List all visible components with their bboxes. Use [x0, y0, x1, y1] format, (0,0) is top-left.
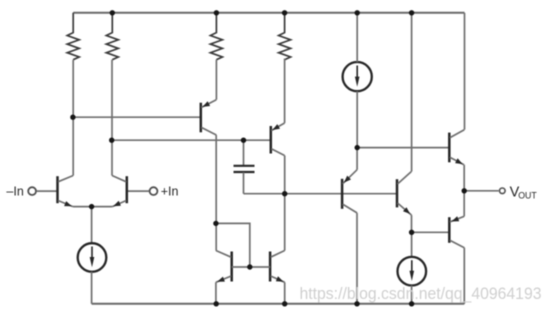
wire: R4 bottom to Q5 emitter — [284, 59, 286, 124]
current source I1 (input tail) — [78, 243, 107, 272]
node: bottom rail junction Q6 — [354, 301, 359, 306]
wire: node E to Q7 base — [357, 147, 449, 149]
transistor Q2 (input NPN, +In side) — [112, 176, 127, 207]
wire: -In terminal to Q1 base — [37, 190, 58, 192]
node: top rail junction I2 — [355, 10, 360, 15]
input terminal -In — [28, 187, 36, 195]
wire: R2 bottom to node B to Q2 collector — [111, 60, 113, 176]
transistor Q4b (mirror NPN, right) — [270, 251, 285, 283]
node: bottom rail junction Q4b — [282, 301, 287, 306]
current source I2 (top bias) — [343, 62, 372, 91]
transistor Q6 (PNP bias driver) — [342, 170, 357, 213]
wire: node F down to current source I3 — [411, 232, 413, 257]
node F: Q8 emitter / Q9 base / I3 — [409, 230, 414, 235]
node: top rail junction Q8 collector — [409, 10, 414, 15]
wire: V+ top supply rail — [73, 12, 464, 14]
wire: diode tie from node D to mirror bases — [216, 223, 250, 267]
node: C1 top / Q5 base wire — [241, 138, 246, 143]
node: top rail junction R3 — [214, 10, 219, 15]
wire: Q2 base to +In terminal — [127, 190, 149, 192]
node E: I2 / Q7 base / Q6 emitter — [355, 145, 360, 150]
node: top rail junction R2 — [110, 10, 115, 15]
transistor Q4a (mirror diode NPN, left) — [216, 251, 232, 283]
wire: I1 to V- rail — [91, 272, 93, 304]
wire: node F to Q9 base — [412, 231, 450, 233]
resistor R3 — [210, 13, 222, 60]
wire: node B to Q5 base — [112, 139, 271, 141]
wire: Q4b emitter to V- rail — [284, 282, 286, 304]
wire: I3 to V- rail — [411, 286, 413, 304]
wire: output node to VOUT terminal — [464, 190, 498, 192]
svg-text:OUT: OUT — [518, 191, 537, 201]
node A: R1 / Q1 collector / Q3 base — [70, 115, 75, 120]
transistor Q5 (PNP, second stage) — [271, 123, 285, 156]
wire: mirror base interconnect — [232, 266, 270, 268]
resistor R2 — [106, 13, 118, 60]
capacitor C1 bottom lead — [243, 172, 245, 193]
wire: node A to Q3 base — [73, 116, 201, 118]
wire: V- bottom supply rail — [92, 303, 465, 305]
wire: V+ rail down to Q8 collector — [411, 13, 413, 172]
transistor Q8 (NPN driver) — [397, 172, 412, 216]
svg-text:https://blog.csdn.net/qq_40964: https://blog.csdn.net/qq_40964193 — [300, 284, 542, 303]
output terminal VOUT — [500, 188, 506, 194]
transistor Q1 (input NPN, -In side) — [58, 176, 74, 207]
node D: Q3 collector / mirror diode — [213, 221, 218, 226]
node: bottom rail junction Q4a — [214, 301, 219, 306]
wire: Q5 collector down through node C to mirror — [284, 156, 286, 251]
wire: I2 to node E — [356, 91, 358, 147]
wire: V+ rail right end down to Q7 collector — [464, 13, 466, 130]
capacitor C1 (Miller compensation) top lead — [243, 140, 245, 165]
wire: Q7 emitter through output node to Q9 emitter — [463, 165, 465, 217]
svg-text:+In: +In — [161, 184, 179, 198]
node: output — [462, 188, 467, 193]
wire: node C horizontal run to Q6/Q8 bases — [244, 193, 398, 195]
wire: R1 bottom to node A to Q1 collector — [72, 60, 74, 176]
capacitor C1 plates — [234, 166, 255, 172]
wire: Q6 collector to V- rail — [356, 213, 358, 304]
svg-text:–In: –In — [6, 184, 23, 198]
transistor Q3 (PNP, first stage load follower) — [201, 100, 217, 135]
wire: Q3 collector down to mirror node — [215, 135, 217, 251]
input terminal +In — [150, 187, 158, 195]
wire: tail node down to current source I1 — [91, 207, 93, 244]
transistor Q7 (NPN output, top) — [449, 130, 464, 165]
wire: V+ rail to I2 — [356, 13, 358, 62]
node B: R2 / Q2 collector / Q5 base — [109, 138, 114, 143]
wire: R3 bottom to Q3 emitter — [215, 60, 217, 100]
wire: Q4a emitter to V- rail — [215, 282, 217, 304]
wire: node E down to Q6 emitter — [356, 148, 358, 170]
node: top rail junction R4 — [282, 10, 287, 15]
node: bottom rail junction I3 — [409, 301, 414, 306]
resistor R1 — [67, 13, 79, 60]
node C: Q5 collector / C1 / driver bases — [282, 191, 287, 196]
wire: Q8 emitter to node F — [411, 215, 413, 232]
wire: Q9 collector to V- rail right end — [463, 248, 465, 304]
node: input pair tail — [89, 204, 94, 209]
wire: emitters of Q1,Q2 to tail node — [73, 206, 112, 208]
resistor R4 — [279, 13, 291, 60]
node: mirror bases — [247, 264, 252, 269]
current source I3 (output bias) — [398, 257, 427, 286]
transistor Q9 (PNP output, bottom) — [449, 216, 464, 247]
